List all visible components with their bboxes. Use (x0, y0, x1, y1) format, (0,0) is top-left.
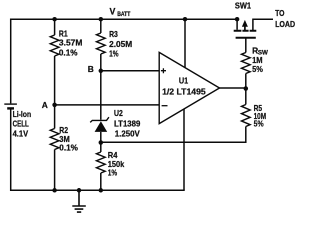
wire bottom ground rail (11, 189, 185, 191)
resistor R5 (242, 105, 251, 127)
resistor R3 (97, 33, 106, 54)
svg-text:LT1389: LT1389 (114, 119, 141, 129)
svg-text:U2: U2 (114, 108, 123, 118)
svg-text:5%: 5% (254, 119, 264, 129)
junction dot bottom rail/ground (77, 188, 82, 193)
junction dot rail/R1 (52, 17, 57, 22)
wire R3/U2/R4 branch column (100, 19, 102, 192)
svg-text:LOAD: LOAD (275, 19, 295, 29)
svg-text:TO: TO (275, 8, 285, 18)
ground symbol (72, 190, 86, 212)
battery B1 Li-Ion cell positive plate (4, 103, 17, 105)
resistor RSW (242, 53, 251, 74)
wire R1/R2 branch column (54, 19, 56, 192)
zener reference U2 LT1389 cathode bar (90, 117, 109, 122)
svg-text:U1: U1 (179, 76, 189, 86)
resistor R4 (97, 152, 106, 173)
svg-text:V: V (110, 7, 116, 17)
svg-text:B: B (88, 64, 94, 74)
wire op-amp output to node (220, 87, 246, 89)
op-amp U1 triangle (159, 52, 219, 123)
wire SW1 gate lead to RSW (245, 38, 247, 53)
junction dot bottom rail/R4 (99, 188, 104, 193)
svg-text:3.57M: 3.57M (59, 38, 83, 48)
wire op-amp V+ supply pin to top rail (184, 19, 186, 68)
svg-text:5%: 5% (252, 64, 263, 74)
wire SW1 drain to TO LOAD (252, 19, 273, 30)
svg-text:1%: 1% (109, 49, 119, 59)
svg-text:SW1: SW1 (235, 1, 251, 11)
svg-text:1/2 LT1495: 1/2 LT1495 (162, 87, 206, 97)
svg-text:2.05M: 2.05M (109, 39, 132, 49)
wire left vertical from rail to battery (10, 19, 12, 104)
svg-text:4.1V: 4.1V (13, 129, 29, 139)
junction dot node A (52, 103, 57, 108)
wire battery negative to bottom rail (10, 109, 12, 191)
svg-text:1%: 1% (108, 168, 118, 178)
svg-text:0.1%: 0.1% (59, 48, 78, 58)
resistor R1 (50, 35, 59, 56)
wire R5 bottom feedback to U2/R4 junction (101, 127, 246, 143)
svg-text:CELL: CELL (13, 119, 29, 129)
svg-text:0.1%: 0.1% (59, 143, 78, 153)
svg-text:R3: R3 (109, 29, 118, 39)
wire node B to op-amp non-inverting input (101, 70, 159, 72)
MOSFET SW1 channel bars (234, 30, 257, 32)
op-amp U1 minus input symbol (162, 105, 168, 107)
junction dot U2/R4/feedback (99, 140, 104, 145)
resistor R2 (50, 129, 59, 150)
junction dot rail/op-amp V+ (183, 17, 188, 22)
battery B1 Li-Ion cell negative plate (7, 107, 14, 109)
svg-text:1.250V: 1.250V (115, 128, 140, 138)
svg-text:A: A (42, 100, 48, 110)
MOSFET SW1 gate bar (236, 37, 256, 39)
junction dot bottom rail/R2 (52, 188, 57, 193)
wire node A to op-amp inverting input (55, 104, 160, 106)
junction dot rail/R3 (99, 17, 104, 22)
junction dot rail/SW1 source (235, 17, 240, 22)
wire top rail VBATT (11, 18, 239, 20)
svg-text:Li-Ion: Li-Ion (13, 109, 32, 119)
wire RSW bottom to output node (245, 74, 247, 105)
wire SW1 source lead from rail (236, 19, 238, 30)
wire op-amp V- supply pin to bottom rail (183, 109, 185, 190)
junction dot node B (99, 69, 104, 74)
zener reference U2 anode triangle (95, 121, 108, 132)
MOSFET SW1 body arrow (244, 25, 246, 31)
svg-text:BATT: BATT (117, 11, 130, 18)
op-amp U1 plus input symbol (161, 68, 166, 73)
junction dot op-amp output node (244, 86, 249, 91)
